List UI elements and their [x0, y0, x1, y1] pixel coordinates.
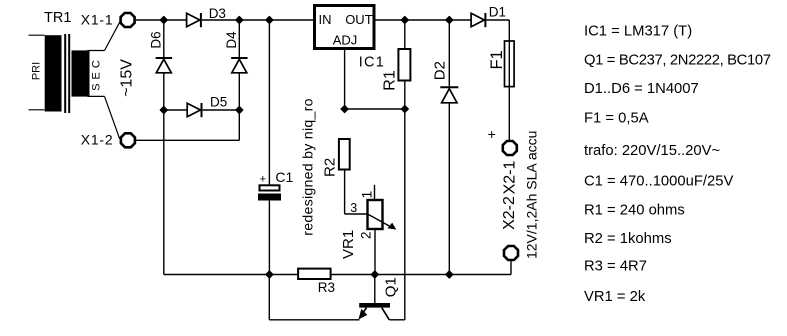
SEC label	[90, 53, 105, 94]
svg-text:~15V: ~15V	[118, 59, 135, 97]
wire ADJ pin down	[344, 50, 346, 109]
wire PRI top lead	[29, 34, 45, 36]
svg-text:TR1: TR1	[44, 10, 71, 26]
svg-text:X2-1: X2-1	[502, 161, 519, 195]
wire to D2 cathode	[448, 20, 450, 86]
svg-text:X2-2: X2-2	[501, 196, 518, 230]
wire up to D5/D4 node	[238, 110, 240, 140]
svg-text:X1-2: X1-2	[81, 132, 114, 148]
svg-text:R2 = 1kohms: R2 = 1kohms	[584, 231, 672, 247]
wire D2 anode down to rail	[448, 103, 450, 275]
svg-text:R1 = 240 ohms: R1 = 240 ohms	[584, 203, 685, 219]
wire R2 bottom	[344, 170, 346, 215]
node ADJ junction	[341, 105, 348, 112]
wire SEC top lead	[88, 50, 105, 52]
op-amp U1 regulator IC1 LM317 box	[315, 6, 375, 49]
node X1-2/D5/D4	[236, 106, 243, 113]
svg-text:OUT: OUT	[345, 12, 373, 27]
svg-text:D1: D1	[489, 5, 506, 20]
wire D6 cathode	[163, 20, 165, 57]
node VR1/Q1 base junction	[371, 271, 378, 278]
wire down through F1	[508, 20, 510, 140]
wire R1 bottom	[404, 81, 406, 110]
terminal X2-2	[504, 246, 518, 260]
wire emitter to ground loop	[269, 319, 359, 321]
Q1 emitter arrow	[359, 309, 368, 320]
diode D4	[231, 57, 248, 59]
wire bottom rail left	[164, 274, 298, 276]
wire neg node to D5	[164, 109, 187, 111]
node R1 top	[401, 16, 408, 23]
resistor R2	[339, 139, 350, 170]
fuse F1	[505, 41, 515, 87]
svg-text:IC1 = LM317 (T): IC1 = LM317 (T)	[584, 23, 692, 39]
svg-text:1: 1	[360, 191, 375, 199]
wire R1 node down to Q1 collector	[404, 109, 406, 320]
svg-text:X1-1: X1-1	[81, 12, 114, 28]
wire diagonal to X1-2	[105, 96, 120, 138]
svg-text:IN: IN	[319, 12, 332, 27]
wire to R1	[404, 20, 406, 49]
svg-text:F1: F1	[488, 50, 506, 69]
svg-text:2: 2	[359, 231, 374, 239]
svg-text:C1 = 470..1000uF/25V: C1 = 470..1000uF/25V	[584, 173, 733, 189]
svg-text:Q1: Q1	[383, 277, 400, 297]
wire to C1 top	[268, 20, 270, 185]
diode D5	[187, 103, 200, 116]
node bridge negative	[160, 106, 167, 113]
svg-text:R3: R3	[318, 280, 335, 295]
wire X2-2 to rail	[510, 261, 512, 275]
wire VR1 pin 1	[374, 185, 376, 200]
wire X1-2 to bridge	[136, 139, 239, 141]
svg-text:trafo: 220V/15..20V~: trafo: 220V/15..20V~	[584, 143, 720, 159]
svg-text:VR1 = 2k: VR1 = 2k	[584, 289, 646, 305]
wire ADJ node horizontal	[345, 108, 405, 110]
wire diagonal to X1-1	[105, 22, 120, 51]
transformer core	[64, 34, 66, 113]
svg-text:+: +	[488, 126, 496, 142]
svg-text:D6: D6	[149, 31, 164, 48]
wire collector to R1 branch	[389, 319, 405, 321]
svg-text:Q1 = BC237, 2N2222, BC107: Q1 = BC237, 2N2222, BC107	[584, 53, 771, 69]
wire to VR1 wiper pin 3	[345, 213, 367, 215]
resistor R3	[298, 269, 331, 279]
svg-text:R3 = 4R7: R3 = 4R7	[584, 258, 647, 274]
terminal X1-1	[121, 13, 135, 27]
wire D3 to IC1 IN	[202, 19, 313, 21]
svg-text:3: 3	[350, 201, 357, 215]
diode D6	[156, 57, 173, 59]
svg-text:ADJ: ADJ	[333, 33, 358, 48]
svg-text:IC1: IC1	[359, 55, 385, 71]
svg-text:F1 = 0,5A: F1 = 0,5A	[584, 110, 649, 126]
terminal X2-1	[503, 141, 517, 155]
transformer TR1 primary winding	[45, 35, 62, 111]
resistor R1	[398, 49, 410, 81]
svg-text:R1: R1	[381, 70, 398, 91]
wire D5 to X1-2 node	[203, 109, 240, 111]
node C1/emitter junction	[266, 271, 273, 278]
svg-text:+: +	[260, 174, 266, 186]
wire D6 anode to node	[163, 73, 165, 110]
diode D1	[471, 13, 484, 26]
svg-text:SEC: SEC	[90, 56, 102, 91]
wire PRI bottom lead	[29, 109, 45, 111]
wire SEC bottom lead	[88, 95, 105, 97]
svg-text:D1..D6 = 1N4007: D1..D6 = 1N4007	[584, 81, 699, 97]
svg-text:C1: C1	[275, 169, 293, 185]
VR1 wiper arrow	[368, 214, 391, 227]
svg-text:redesigned by niq_ro: redesigned by niq_ro	[301, 98, 317, 236]
svg-text:PRI: PRI	[30, 62, 42, 80]
node C1 top junction	[266, 16, 273, 23]
wire D4 anode to node	[238, 73, 240, 110]
wire bottom rail right	[331, 274, 511, 276]
terminal X1-2	[121, 133, 135, 147]
node X1-1/D3/D6 junction	[160, 16, 167, 23]
diode D3	[187, 13, 200, 26]
svg-text:12V/1,2Ah SLA accu: 12V/1,2Ah SLA accu	[523, 131, 539, 259]
wire negative rail down	[163, 110, 165, 275]
wire OUT to D1	[375, 19, 471, 21]
capacitor C1	[260, 185, 280, 190]
transformer TR1 secondary winding	[72, 50, 90, 96]
svg-text:D2: D2	[432, 61, 449, 80]
wire C1 bottom to rail	[268, 201, 270, 275]
node D2 anode junction	[446, 271, 453, 278]
svg-text:VR1: VR1	[340, 230, 357, 259]
node D4 cathode junction	[236, 16, 243, 23]
wire rail to Q1 base	[374, 275, 376, 304]
svg-text:D4: D4	[224, 31, 239, 49]
diode D2	[440, 86, 458, 88]
wire D1 to corner	[486, 19, 509, 21]
Q1 collector lead	[382, 308, 390, 320]
svg-text:R2: R2	[321, 158, 338, 177]
wire X1-1 to D3	[136, 19, 187, 21]
node R1/collector junction	[401, 105, 408, 112]
Q1 emitter lead	[360, 308, 367, 318]
potentiometer VR1	[368, 200, 383, 229]
transistor Q1	[359, 303, 390, 308]
wire D4 cathode	[238, 20, 240, 57]
wire VR1 pin 2 down	[374, 230, 376, 275]
wire emitter loop up to rail	[268, 275, 270, 320]
svg-text:D5: D5	[210, 95, 227, 110]
svg-text:D3: D3	[209, 6, 226, 21]
node D2 top	[446, 16, 453, 23]
